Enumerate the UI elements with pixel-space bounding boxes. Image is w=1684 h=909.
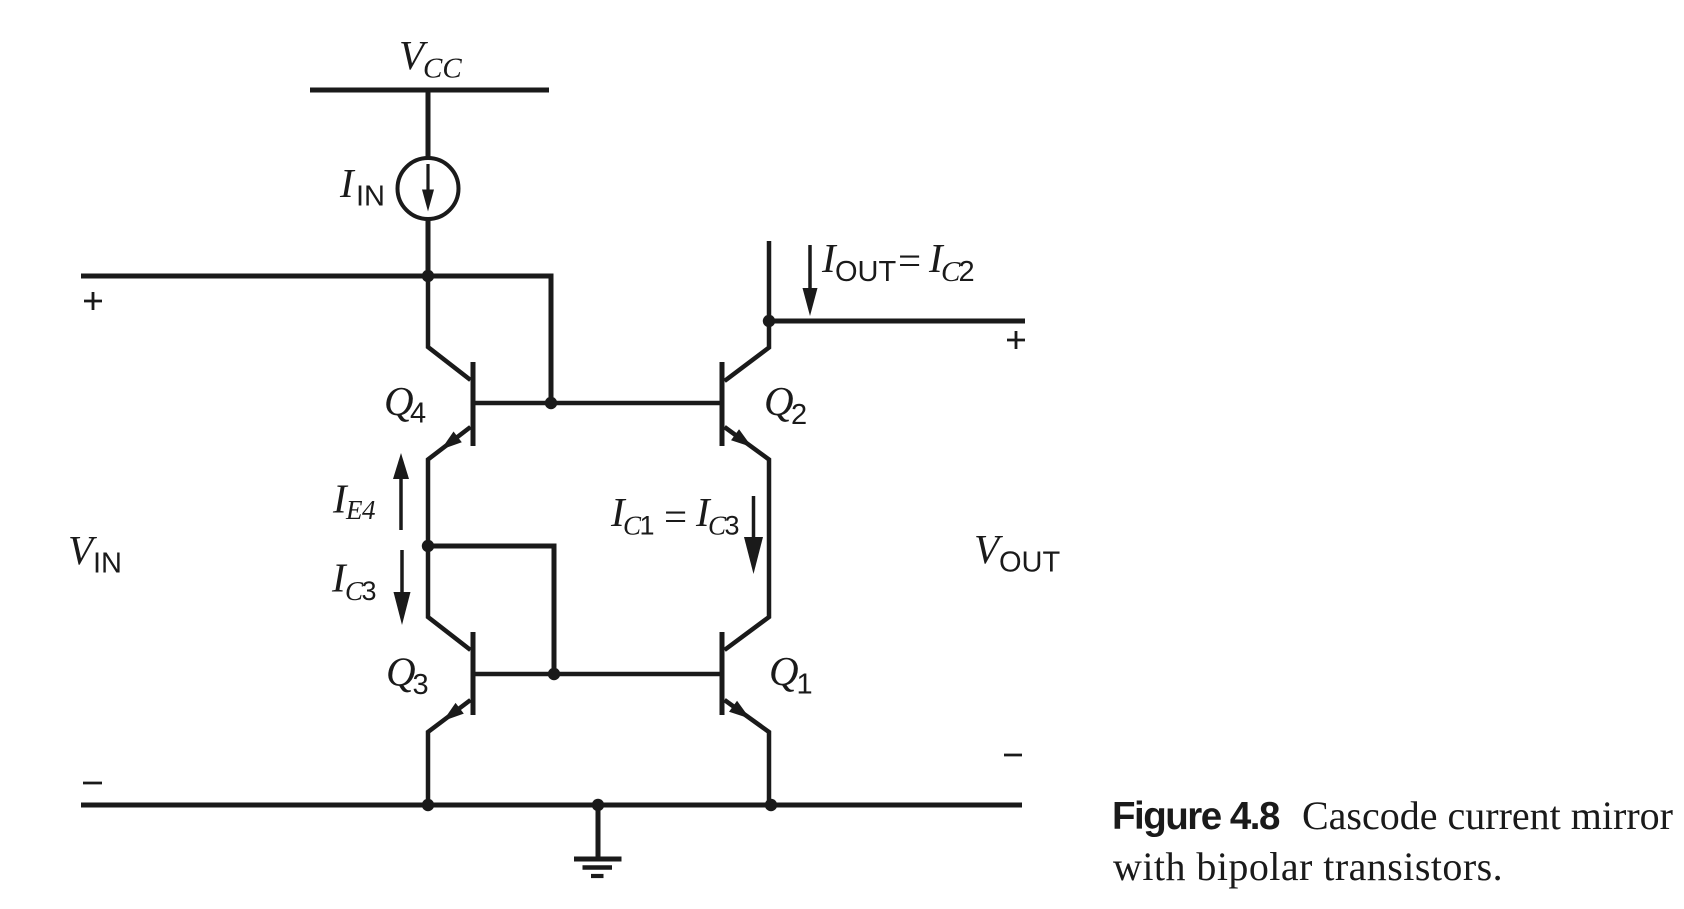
svg-text:2: 2 xyxy=(791,399,807,431)
svg-text:1: 1 xyxy=(797,669,813,701)
svg-text:2: 2 xyxy=(959,256,975,288)
svg-text:Q: Q xyxy=(764,378,794,424)
svg-text:I: I xyxy=(339,160,356,206)
svg-text:Q: Q xyxy=(386,649,416,695)
svg-text:Q: Q xyxy=(769,648,799,694)
svg-text:with bipolar transistors.: with bipolar transistors. xyxy=(1113,844,1503,889)
svg-text:3: 3 xyxy=(413,669,429,701)
svg-text:1: 1 xyxy=(640,511,655,541)
svg-text:4: 4 xyxy=(362,495,376,525)
svg-text:=: = xyxy=(898,238,921,284)
svg-text:Figure 4.8: Figure 4.8 xyxy=(1112,795,1280,838)
svg-text:OUT: OUT xyxy=(835,256,897,288)
svg-text:IN: IN xyxy=(93,548,122,580)
svg-text:Cascode current mirror: Cascode current mirror xyxy=(1302,793,1673,838)
svg-text:=: = xyxy=(664,494,687,540)
svg-text:E: E xyxy=(345,495,363,525)
svg-text:IN: IN xyxy=(356,181,385,213)
svg-text:4: 4 xyxy=(410,398,426,430)
svg-text:3: 3 xyxy=(725,511,740,541)
svg-text:CC: CC xyxy=(423,53,462,85)
svg-text:OUT: OUT xyxy=(999,547,1061,579)
svg-text:3: 3 xyxy=(362,576,377,606)
